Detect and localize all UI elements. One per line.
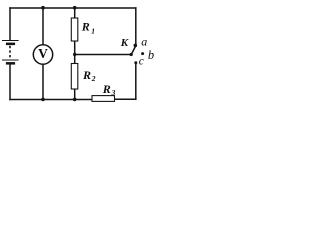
battery cell 1 long plate xyxy=(2,40,19,42)
node junction top R1 xyxy=(73,6,77,10)
wire R1 top xyxy=(74,8,76,18)
battery cell 2 short thick plate xyxy=(6,62,15,65)
wire R2 bottom xyxy=(74,89,76,100)
wire left lower xyxy=(9,65,11,100)
node junction middle xyxy=(73,53,76,56)
node junction bottom voltmeter xyxy=(41,98,45,102)
switch contact a dot xyxy=(134,44,138,48)
switch K pivot dot xyxy=(130,53,133,56)
svg-text:1: 1 xyxy=(91,26,95,35)
wire middle horizontal xyxy=(75,54,132,56)
svg-text:K: K xyxy=(120,37,129,49)
svg-text:R: R xyxy=(102,82,111,96)
wire contact c down xyxy=(135,63,137,99)
wire bottom xyxy=(10,99,92,101)
switch contact b dot xyxy=(141,52,144,55)
svg-text:V: V xyxy=(38,46,48,61)
wire bottom right xyxy=(115,98,136,100)
svg-text:3: 3 xyxy=(111,88,116,97)
svg-text:R: R xyxy=(81,20,90,34)
resistor R1 box xyxy=(71,18,78,41)
svg-text:2: 2 xyxy=(91,74,96,83)
resistor R2 box xyxy=(71,64,78,90)
node junction bottom R2 xyxy=(73,98,77,102)
wire voltmeter top xyxy=(42,8,44,45)
switch K blade xyxy=(131,45,136,55)
svg-text:a: a xyxy=(141,34,147,48)
voltmeter V circle xyxy=(33,45,52,64)
node junction top voltmeter xyxy=(41,6,45,10)
wire top xyxy=(10,7,136,9)
wire left upper xyxy=(9,8,11,40)
battery dashed link xyxy=(9,46,11,59)
battery cell 2 long plate xyxy=(2,59,19,61)
wire right upper to contact a xyxy=(135,8,137,46)
wire voltmeter bottom xyxy=(42,64,44,99)
switch contact c dot xyxy=(134,61,137,64)
wire R1 to node xyxy=(74,41,76,64)
resistor R3 box xyxy=(92,96,115,102)
svg-text:R: R xyxy=(82,68,91,82)
svg-text:b: b xyxy=(148,48,154,62)
battery cell 1 short thick plate xyxy=(6,43,15,46)
svg-text:c: c xyxy=(139,56,144,68)
